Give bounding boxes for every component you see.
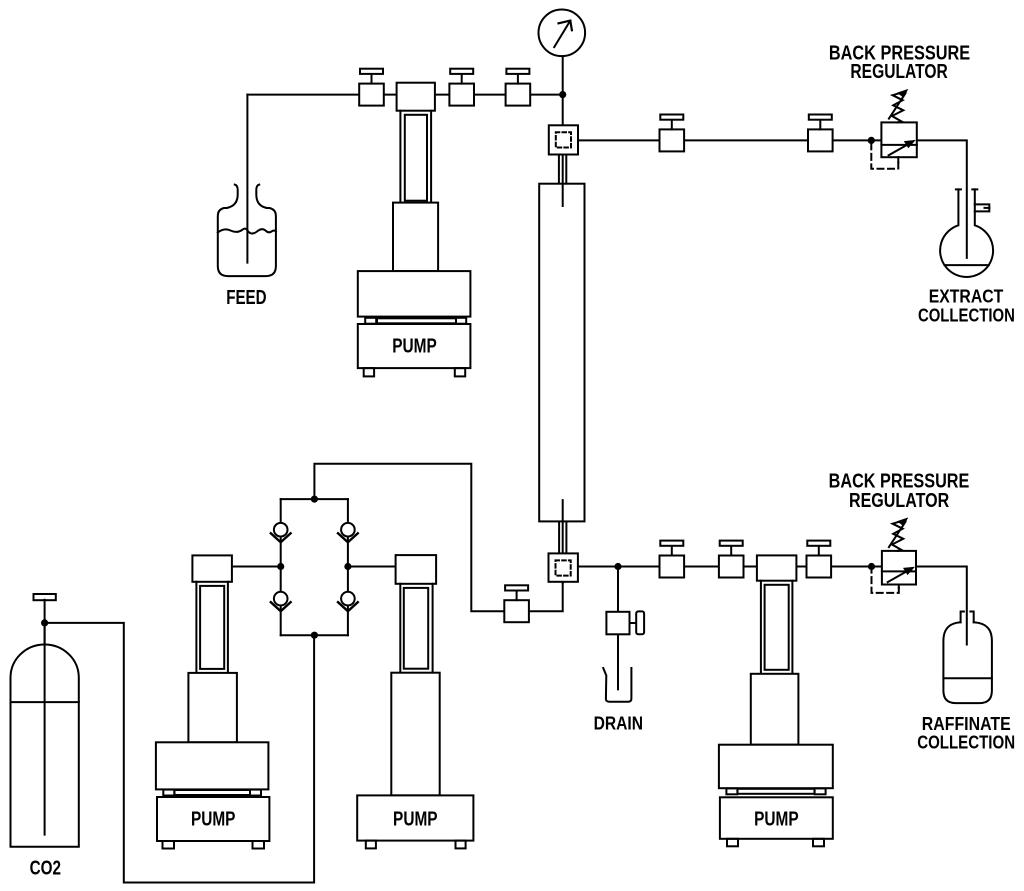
pump P2 (CO2 pump, bottom left) xyxy=(156,555,270,848)
svg-text:EXTRACT: EXTRACT xyxy=(929,287,1004,307)
extract collection flask xyxy=(940,189,993,277)
drain beaker xyxy=(603,668,631,702)
fitting: column top end cap xyxy=(549,125,578,154)
valve V8 (raffinate line) xyxy=(719,541,744,578)
valve V1 (feed line) xyxy=(359,69,384,106)
svg-text:PUMP: PUMP xyxy=(754,809,799,831)
wire: manifold mid line to middle pump xyxy=(348,566,396,568)
pump P4 (recycle pump, bottom right) xyxy=(719,555,833,846)
pressure gauge PI xyxy=(539,10,586,57)
svg-text:PUMP: PUMP xyxy=(392,336,437,358)
valve V2 (top line) xyxy=(449,69,474,106)
node: CO2 outlet junction xyxy=(41,619,48,626)
drain valve xyxy=(606,611,644,634)
check valve CV4 (manifold right bottom) xyxy=(338,592,358,611)
check valve CV1 (manifold left top) xyxy=(271,523,291,542)
raffinate collection bottle xyxy=(943,612,992,704)
extraction column xyxy=(539,184,584,522)
CO2 cylinder xyxy=(11,594,79,847)
svg-text:DRAIN: DRAIN xyxy=(594,714,643,734)
wire: feed dip line down into feed jar xyxy=(246,95,248,263)
svg-text:PUMP: PUMP xyxy=(191,809,236,831)
wire: drain drop line xyxy=(617,567,619,612)
wire: column bottom outlet line to raffinate, down into bottle xyxy=(578,567,967,645)
wire: column inner tube top xyxy=(562,153,564,207)
wire: manifold top header xyxy=(281,498,348,500)
valve V3 (top line) xyxy=(506,69,531,106)
svg-text:RAFFINATE: RAFFINATE xyxy=(922,714,1011,734)
node: manifold bottom junction xyxy=(311,632,318,639)
valve V9 (raffinate line, before BPR) xyxy=(807,541,832,578)
wire: column inner tube bottom xyxy=(562,500,564,583)
wire: column top tube bundle xyxy=(558,155,560,184)
svg-text:CO2: CO2 xyxy=(30,858,61,880)
node: junction before extract BPR xyxy=(868,137,875,144)
svg-text:COLLECTION: COLLECTION xyxy=(917,733,1015,753)
check valve CV2 (manifold left bottom) xyxy=(271,592,291,611)
pump P3 (CO2 pump, bottom middle) xyxy=(357,555,473,848)
svg-text:COLLECTION: COLLECTION xyxy=(918,306,1015,326)
wire: manifold right branch xyxy=(347,499,349,635)
wire: CO2 branch to bottom manifold riser xyxy=(45,623,315,883)
feed jar with liquid xyxy=(218,185,276,277)
node: manifold mid-left junction xyxy=(277,563,284,570)
valve V5 (extract line, before BPR) xyxy=(808,115,833,152)
valve V6 (column bottom inlet line) xyxy=(504,585,529,622)
node: gauge junction on top line xyxy=(559,91,566,98)
wire: column bottom tube bundle xyxy=(558,522,560,553)
wire: manifold mid line to left pump xyxy=(232,566,281,568)
wire: gauge stem down through junction to column top fitting xyxy=(562,56,564,126)
wire: right top line from fitting to extract collection, down into flask xyxy=(578,140,967,258)
node: junction before raffinate BPR xyxy=(868,563,875,570)
valve V7 (raffinate line) xyxy=(660,541,685,578)
pump P1 (feed pump, top) xyxy=(358,83,471,377)
wire: drain valve to beaker xyxy=(617,634,619,689)
valve V4 (extract line) xyxy=(660,115,685,152)
svg-text:FEED: FEED xyxy=(226,287,266,309)
svg-text:REGULATOR: REGULATOR xyxy=(849,490,950,512)
back pressure regulator BPR2 (raffinate) xyxy=(872,517,917,593)
node: manifold top junction xyxy=(311,496,318,503)
wire: top main line from feed corner to gauge junction xyxy=(247,94,562,96)
wire: CO2 dip tube and valve stem xyxy=(44,600,46,835)
wire: column inner dip tube top (inside column) xyxy=(562,184,564,206)
back pressure regulator BPR1 (extract) xyxy=(871,89,917,169)
wire: manifold bottom header xyxy=(281,634,348,636)
node: drain junction xyxy=(614,563,621,570)
wire: column inner outlet tube bottom (inside column) xyxy=(562,500,564,521)
node: manifold mid-right junction xyxy=(344,563,351,570)
check valve CV3 (manifold right top) xyxy=(338,523,358,542)
wire: manifold left branch xyxy=(280,499,282,635)
wire: manifold outlet up, across and down to column bottom inlet xyxy=(314,464,562,611)
svg-text:PUMP: PUMP xyxy=(393,809,438,831)
svg-text:REGULATOR: REGULATOR xyxy=(850,61,948,83)
fitting: column bottom end cap xyxy=(549,553,578,581)
